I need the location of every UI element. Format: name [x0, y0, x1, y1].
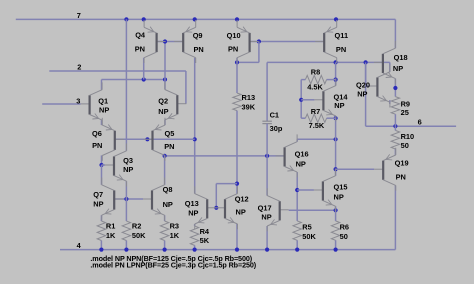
Q11 designator label [335, 31, 349, 40]
svg-text:Q10: Q10 [227, 31, 241, 40]
wire R8-R7 left [300, 80, 302, 119]
wire Q7E-R1 [100, 215, 102, 221]
svg-text:Q6: Q6 [92, 129, 102, 138]
R13 designator label [242, 93, 256, 102]
Q17 designator label [258, 203, 272, 212]
transistor Q9 (PNP) [174, 20, 196, 63]
junction R1/rail4 [99, 248, 103, 252]
transistor Q16 (NPN) [276, 134, 298, 177]
capacitor C1 [262, 121, 272, 123]
Q13 model-type label [188, 208, 198, 217]
svg-text:3: 3 [76, 97, 80, 106]
transistor Q19 (PNP) [374, 148, 396, 191]
transistor Q18 (NPN) [374, 41, 396, 84]
resistor R6 [331, 210, 339, 249]
junction R7 right/Q14 emitter [334, 116, 338, 120]
Q3 model-type label [123, 165, 133, 174]
Q14 designator label [334, 92, 349, 101]
wire Q17B-Q15E y210 [289, 209, 336, 211]
C1 designator label [270, 111, 279, 120]
wire node 2 rail [49, 71, 186, 104]
svg-text:Q16: Q16 [295, 149, 309, 158]
Q15 model-type label [334, 193, 344, 202]
resistor R8 [301, 75, 335, 83]
svg-text:25: 25 [401, 108, 409, 117]
transistor Q1 (NPN) [81, 82, 103, 125]
transistor Q7 (NPN) [102, 178, 124, 221]
svg-text:Q17: Q17 [258, 203, 272, 212]
wire C1-Q17C [266, 156, 268, 196]
wire Q6C-node [101, 155, 103, 165]
svg-text:NP: NP [123, 165, 133, 174]
node 4 label [77, 241, 82, 250]
junction Q12 emitter/rail4 [235, 248, 239, 252]
svg-text:NP: NP [236, 207, 246, 216]
resistor R7 [301, 114, 335, 122]
transistor Q8 (NPN) [143, 178, 165, 221]
svg-text:.model PN LPNP(BF=25 Cje=.3p C: .model PN LPNP(BF=25 Cje=.3p Cjc=1.5p Rb… [90, 260, 256, 269]
junction rail7/Q10 emitter [235, 17, 239, 21]
Q5 model-type label [164, 142, 174, 151]
junction Q5/Q8 collectors [163, 154, 167, 158]
Q12 designator label [235, 194, 249, 203]
wire Q12E-rail4 [236, 224, 238, 250]
junction Q11 collector/Q14 [334, 60, 338, 64]
svg-text:50: 50 [401, 141, 409, 150]
node 3 label [76, 97, 80, 106]
Q9 model-type label [194, 45, 204, 54]
wire Q6.B-Q5.B y139 [115, 138, 195, 140]
R4 designator label [200, 227, 210, 236]
wire Q13E-R4 [194, 224, 196, 226]
model directive PNP [90, 260, 256, 269]
R3 designator label [170, 221, 179, 230]
junction R13/Q12 collector [235, 182, 239, 186]
junction Q5 base [145, 137, 149, 141]
Q2 model-type label [158, 107, 168, 116]
Q16 model-type label [296, 159, 306, 168]
junction Q15E/R6 [334, 208, 338, 212]
Q15 designator label [334, 182, 348, 191]
svg-text:Q4: Q4 [135, 31, 146, 40]
wire Q16C y139 [297, 139, 335, 141]
node 7 label [77, 11, 81, 20]
R10 value label [401, 141, 409, 150]
Q10 designator label [227, 31, 241, 40]
wire C1 top lead [266, 62, 268, 121]
R2 value label [132, 231, 146, 240]
R10 designator label [401, 132, 415, 141]
svg-text:2: 2 [77, 62, 81, 71]
wire node 6 rail [366, 62, 457, 126]
wire Q18E-R9 [394, 79, 396, 97]
junction Q4/Q9 base [163, 39, 167, 43]
svg-text:PN: PN [194, 45, 204, 54]
junction Q12/Q13 bases [214, 206, 218, 210]
junction C1/Q17 collector [265, 154, 269, 158]
junction R6/rail4 [334, 248, 338, 252]
junction Q10 collector/R13 [235, 60, 239, 64]
wire Q2C riser [164, 42, 166, 90]
svg-text:NP: NP [357, 90, 367, 99]
wire rail7-Q3 collector [125, 19, 127, 150]
wire Q1E-Q6E [101, 120, 103, 125]
svg-text:Q20: Q20 [356, 80, 370, 89]
svg-text:R10: R10 [401, 132, 415, 141]
Q19 designator label [395, 158, 409, 167]
wire x335 mid [335, 118, 337, 176]
svg-text:30p: 30p [270, 124, 283, 133]
R8 designator label [311, 67, 320, 76]
Q19 model-type label [396, 172, 406, 181]
junction Q19 base wire [334, 167, 338, 171]
resistor R10 [391, 126, 399, 155]
svg-text:1K: 1K [106, 231, 116, 240]
junction Q17 emitter/rail4 [265, 248, 269, 252]
wire Q17E-rail4 [266, 226, 268, 250]
R1 value label [106, 231, 116, 240]
Q5 designator label [165, 129, 175, 138]
wire Q20 emitter stub [389, 100, 391, 104]
svg-text:NP: NP [158, 107, 168, 116]
resistor R3 [160, 221, 168, 250]
svg-text:Q3: Q3 [123, 156, 133, 165]
R9 value label [401, 108, 409, 117]
transistor Q17 (NPN) [267, 188, 289, 231]
svg-text:Q18: Q18 [394, 53, 408, 62]
transistor Q12 (NPN) [216, 186, 238, 229]
junction Q14 base [299, 98, 303, 102]
junction rail7/Q3 collector [124, 17, 128, 21]
svg-text:6: 6 [418, 118, 422, 127]
R1 designator label [106, 221, 115, 230]
svg-text:NP: NP [334, 193, 344, 202]
svg-text:39K: 39K [242, 103, 256, 112]
node 2 label [77, 62, 81, 71]
Q3 designator label [123, 156, 133, 165]
svg-text:PN: PN [336, 45, 346, 54]
svg-text:R3: R3 [170, 221, 179, 230]
svg-text:R6: R6 [340, 223, 349, 232]
junction rail6/R9/R10 [393, 124, 397, 128]
svg-text:R4: R4 [200, 227, 210, 236]
R9 designator label [401, 99, 410, 108]
resistor R1 [97, 221, 105, 250]
wire Q8E-R3 [164, 215, 166, 221]
junction R8 right [334, 78, 338, 82]
Q11 model-type label [336, 45, 346, 54]
resistor R4 [190, 226, 198, 250]
R5 value label [302, 232, 316, 241]
junction rail7/Q11 emitter [334, 17, 338, 21]
wire Q9C-Q13C [194, 58, 196, 194]
svg-text:R13: R13 [242, 93, 256, 102]
Q7 model-type label [93, 199, 103, 208]
svg-text:Q15: Q15 [334, 182, 348, 191]
junction Q16C/x335 column [334, 137, 338, 141]
R5 designator label [302, 223, 311, 232]
svg-text:PN: PN [164, 142, 174, 151]
svg-text:NP: NP [99, 106, 109, 115]
Q16 designator label [295, 149, 309, 158]
junction Q9C/base wire y139 [193, 137, 197, 141]
C1 value label [270, 124, 283, 133]
wire Q4C drop [143, 58, 145, 80]
Q1 designator label [98, 96, 108, 105]
R3 value label [170, 231, 180, 240]
node 6 label [418, 118, 422, 127]
Q10 model-type label [228, 45, 238, 54]
resistor R13 [233, 93, 241, 111]
svg-text:Q19: Q19 [395, 158, 409, 167]
R6 value label [340, 232, 348, 241]
Q14 model-type label [334, 101, 344, 110]
wire input-mirror y79 [102, 80, 166, 90]
wire Q19 base y169 [336, 168, 375, 170]
Q6 designator label [92, 129, 102, 138]
junction rail7/Q4 emitter [142, 17, 146, 21]
junction Q20 base/node6 column [364, 60, 368, 64]
Q9 designator label [193, 31, 203, 40]
Q18 model-type label [393, 64, 403, 73]
Q20 designator label [356, 80, 370, 89]
wire node 3 rail [42, 103, 80, 105]
transistor Q15 (NPN) [314, 169, 336, 212]
svg-text:1K: 1K [170, 231, 180, 240]
wire Q4.B-Q9.B [157, 41, 184, 43]
wire Q10C-R13 [236, 58, 238, 93]
Q2 designator label [158, 96, 168, 105]
svg-text:5K: 5K [200, 236, 210, 245]
svg-text:R9: R9 [401, 99, 410, 108]
R8 value label [307, 82, 323, 91]
svg-text:NP: NP [296, 159, 306, 168]
svg-text:PN: PN [92, 141, 102, 150]
R4 value label [200, 236, 210, 245]
svg-text:Q1: Q1 [98, 96, 108, 105]
junction Q2 collector column [163, 77, 167, 81]
Q8 designator label [163, 185, 173, 194]
wire Q20 collector riser [389, 62, 391, 71]
transistor Q14 (NPN) [314, 78, 336, 121]
transistor Q5 (PNP) [144, 118, 166, 161]
junction R5/rail4 [295, 248, 299, 252]
svg-text:4.5K: 4.5K [307, 82, 323, 91]
transistor Q13 (NPN) [195, 186, 217, 229]
Q8 model-type label [163, 200, 173, 209]
svg-text:Q9: Q9 [193, 31, 203, 40]
svg-text:Q5: Q5 [165, 129, 175, 138]
wire Q3 base stub [102, 164, 106, 166]
svg-text:NP: NP [261, 213, 271, 222]
R13 value label [242, 103, 256, 112]
transistor Q11 (PNP) [315, 20, 337, 63]
Q12 model-type label [236, 207, 246, 216]
Q6 model-type label [92, 141, 102, 150]
Q1 model-type label [99, 106, 109, 115]
Q4 designator label [135, 31, 146, 40]
junction Q10 base loop [257, 39, 261, 43]
junction Q4 collector [142, 77, 146, 81]
wire Q10.B-Q11.B [250, 41, 325, 43]
junction Q3E column/Q7 base [124, 197, 128, 201]
svg-text:Q11: Q11 [335, 31, 349, 40]
Q4 model-type label [135, 44, 145, 53]
transistor Q6 (PNP) [102, 118, 124, 161]
svg-text:7: 7 [77, 11, 81, 20]
svg-text:7.5K: 7.5K [309, 121, 325, 130]
svg-text:R7: R7 [311, 107, 320, 116]
wire node 7 rail [16, 19, 396, 48]
svg-text:NP: NP [393, 64, 403, 73]
model directive NPN [90, 254, 252, 263]
svg-text:R2: R2 [132, 221, 141, 230]
wire Q10 base-collector loop [237, 42, 259, 63]
wire C1 bottom lead [266, 124, 268, 156]
wire Q15 base link [297, 189, 314, 191]
junction R4/rail4 [193, 248, 197, 252]
wire Q14E-R7 [335, 116, 337, 118]
wire R13-Q12C [236, 111, 238, 194]
svg-text:R1: R1 [106, 221, 115, 230]
junction Q6C/Q3B/Q7C [99, 163, 103, 167]
svg-text:50: 50 [340, 232, 348, 241]
Q18 designator label [394, 53, 408, 62]
svg-text:R5: R5 [302, 223, 311, 232]
svg-text:Q7: Q7 [93, 190, 103, 199]
resistor R2 [122, 221, 130, 250]
svg-text:NP: NP [163, 200, 173, 209]
wire Q7.B-Q8.B [114, 198, 143, 200]
wire Q2E-Q5E [164, 120, 166, 125]
svg-text:PN: PN [228, 45, 238, 54]
Q17 model-type label [261, 213, 271, 222]
svg-text:PN: PN [135, 44, 145, 53]
R2 designator label [132, 221, 141, 230]
R7 value label [309, 121, 325, 130]
wire Q20 base drop [366, 62, 369, 86]
wire Q12Q13 base link [216, 184, 237, 208]
Q13 designator label [185, 199, 199, 208]
svg-text:PN: PN [396, 172, 406, 181]
resistor R5 [293, 221, 301, 250]
svg-text:NP: NP [93, 199, 103, 208]
svg-text:50K: 50K [132, 231, 146, 240]
wire Q5C-Q8C drop [164, 156, 166, 185]
R6 designator label [340, 223, 349, 232]
junction R2/rail4 [124, 248, 128, 252]
transistor Q3 (NPN) [105, 144, 127, 187]
resistor R9 [391, 97, 399, 127]
transistor Q20 (NPN) [368, 65, 390, 108]
wire node-Q7C [101, 165, 103, 185]
svg-text:Q12: Q12 [235, 194, 249, 203]
wire C1top-Q18 base [267, 61, 390, 63]
svg-text:50K: 50K [302, 232, 316, 241]
svg-text:Q8: Q8 [163, 185, 173, 194]
transistor Q10 (PNP) [237, 20, 259, 63]
junction R3/rail4 [163, 248, 167, 252]
svg-text:NP: NP [334, 101, 344, 110]
svg-text:C1: C1 [270, 111, 279, 120]
wire Q15E drop [335, 206, 337, 210]
junction Q15 base [295, 188, 299, 192]
transistor Q4 (PNP) [144, 20, 166, 63]
svg-text:R8: R8 [311, 67, 320, 76]
wire Q3E-R2 [125, 181, 127, 221]
R7 designator label [311, 107, 320, 116]
junction rail7/Q9 emitter [193, 17, 197, 21]
Q20 model-type label [357, 90, 367, 99]
svg-text:Q2: Q2 [158, 96, 168, 105]
Q7 designator label [93, 190, 103, 199]
wire x335 Q11C-Q14 [335, 62, 337, 85]
transistor Q2 (NPN) [165, 82, 187, 125]
junction Q18 emitter/R9 [393, 86, 397, 90]
wire Q14 base link [301, 99, 314, 101]
wire node 4 rail [60, 185, 395, 249]
svg-text:NP: NP [188, 208, 198, 217]
wire Q5C-Q16B y156 [165, 155, 285, 157]
wire Q16E-R5 [296, 172, 298, 221]
svg-text:Q13: Q13 [185, 199, 199, 208]
